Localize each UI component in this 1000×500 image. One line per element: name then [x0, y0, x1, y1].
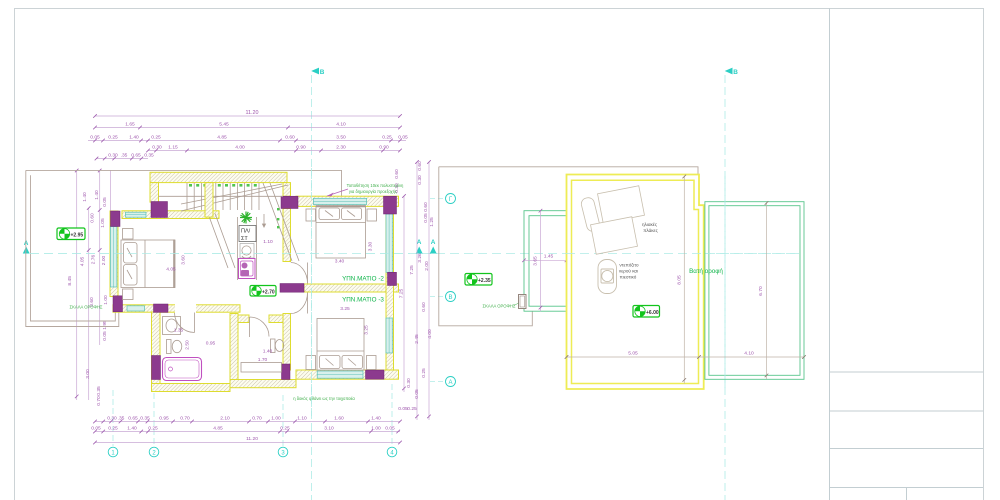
closet PL/ST [238, 217, 257, 280]
svg-text:η δοκός φθάνει ως την τοιχοποι: η δοκός φθάνει ως την τοιχοποιία [293, 396, 355, 401]
right wall [386, 206, 394, 370]
svg-text:0.95: 0.95 [159, 416, 169, 422]
svg-text:0.35: 0.35 [96, 386, 102, 396]
roof dims [683, 177, 685, 384]
svg-text:1.60: 1.60 [334, 416, 344, 422]
bottom dimension chain [91, 416, 402, 445]
svg-text:7.25: 7.25 [399, 288, 405, 298]
doors [175, 263, 308, 338]
terrace outline below (gray) [26, 170, 342, 196]
wc-2 fixtures [241, 339, 284, 372]
svg-text:ΥΠΝ.ΜΑΤΙΟ -3: ΥΠΝ.ΜΑΤΙΟ -3 [342, 297, 384, 304]
svg-text:0.70: 0.70 [252, 416, 262, 422]
svg-text:0.35: 0.35 [144, 153, 154, 159]
svg-text:ΠΛ/: ΠΛ/ [241, 229, 251, 235]
svg-text:0.05: 0.05 [385, 426, 395, 432]
svg-text:2.45: 2.45 [414, 334, 420, 344]
svg-text:4.10: 4.10 [336, 122, 346, 128]
left wall bedroom-1 [110, 211, 118, 297]
bottom wall bedroom-3 [296, 370, 399, 379]
svg-text:1.70: 1.70 [258, 357, 268, 363]
grid bubbles right plan [430, 194, 456, 387]
svg-text:B: B [733, 69, 738, 76]
top dimension chain [88, 110, 408, 160]
svg-text:1.40: 1.40 [94, 190, 100, 200]
svg-text:1.65: 1.65 [125, 122, 135, 128]
svg-text:7.25: 7.25 [409, 265, 415, 275]
svg-text:1.15: 1.15 [168, 145, 178, 151]
green roof level 1 [524, 211, 699, 312]
svg-text:8.45: 8.45 [67, 276, 73, 286]
svg-text:A: A [431, 239, 436, 246]
svg-text:0.60: 0.60 [423, 202, 429, 212]
title block [830, 8, 984, 500]
svg-text:1.10: 1.10 [263, 239, 273, 245]
svg-text:0.25: 0.25 [421, 368, 427, 378]
right dimension chains of left plan [394, 160, 435, 420]
stair core wall over treads [205, 183, 213, 218]
svg-text:1.45: 1.45 [544, 254, 554, 260]
svg-text:4.05: 4.05 [166, 267, 176, 273]
svg-text:ΣΚΑΛΑ ΟΡΟΦΗΣ: ΣΚΑΛΑ ΟΡΟΦΗΣ [483, 304, 516, 309]
svg-text:3.25: 3.25 [364, 325, 370, 335]
corridor east wall [283, 209, 291, 262]
svg-text:ηλιακές: ηλιακές [642, 221, 658, 227]
svg-text:πλάκες: πλάκες [643, 227, 658, 233]
bath left wall [152, 312, 161, 384]
svg-text:11.20: 11.20 [246, 436, 258, 442]
svg-text:4.85: 4.85 [213, 426, 223, 432]
svg-text:1.10: 1.10 [297, 416, 307, 422]
svg-text:0.05: 0.05 [414, 389, 420, 399]
svg-text:8.05: 8.05 [677, 275, 683, 285]
svg-text:για δημιουργία προεξοχής: για δημιουργία προεξοχής [349, 189, 397, 194]
svg-text:Βατή οροφή: Βατή οροφή [689, 268, 723, 275]
left dimension chains [67, 169, 111, 406]
svg-text:2.76: 2.76 [91, 254, 97, 264]
svg-text:1.25: 1.25 [429, 217, 435, 227]
svg-text:0.60: 0.60 [417, 161, 423, 171]
svg-text:0.05: 0.05 [102, 331, 108, 341]
green roof level 2 (vati orofi) [705, 202, 804, 380]
bed 3 [306, 319, 376, 371]
svg-text:3.00: 3.00 [85, 369, 91, 379]
svg-text:0.30: 0.30 [152, 145, 162, 151]
svg-text:ΣΚΑΛΑ ΟΡΟΦΗΣ: ΣΚΑΛΑ ΟΡΟΦΗΣ [70, 305, 103, 310]
plant symbol [240, 212, 252, 224]
svg-text:0.05: 0.05 [91, 426, 101, 432]
svg-text:0.05: 0.05 [102, 197, 108, 207]
walls [150, 172, 287, 182]
svg-text:1.00: 1.00 [103, 295, 109, 305]
svg-text:1.05: 1.05 [100, 218, 106, 228]
svg-text:4.00: 4.00 [427, 329, 433, 339]
svg-text:0.30: 0.30 [406, 378, 412, 388]
svg-text:3.30: 3.30 [368, 241, 374, 251]
magenta sink unit [239, 259, 256, 279]
section dashes re-draw over roof [566, 253, 800, 255]
grid bubbles bottom [108, 384, 397, 457]
yellow roof (walkable) [567, 175, 704, 390]
svg-text:0.30: 0.30 [107, 416, 117, 422]
svg-text:4.85: 4.85 [217, 135, 227, 141]
svg-text:2.10: 2.10 [220, 416, 230, 422]
elevation marker +6.00 [633, 306, 660, 318]
svg-text:A: A [417, 239, 422, 246]
svg-text:ΣΤ: ΣΤ [241, 236, 248, 242]
section line A-A horizontal [23, 239, 800, 254]
svg-text:1.00: 1.00 [271, 416, 281, 422]
svg-text:.35: .35 [118, 416, 125, 422]
svg-text:3.60: 3.60 [181, 255, 187, 265]
svg-text:ντεπόζιτο: ντεπόζιτο [619, 262, 639, 269]
svg-text:0.25: 0.25 [280, 426, 290, 432]
bathroom 1 fixtures [163, 317, 202, 381]
svg-text:5.45: 5.45 [219, 122, 229, 128]
svg-text:+2.35: +2.35 [478, 278, 491, 284]
svg-text:Τοποθέτηση 10εκ πολυστερίνη: Τοποθέτηση 10εκ πολυστερίνη [347, 183, 404, 188]
svg-text:B: B [320, 69, 325, 76]
svg-text:3.50: 3.50 [336, 135, 346, 141]
svg-text:0.60: 0.60 [421, 302, 427, 312]
svg-text:1.00: 1.00 [371, 426, 381, 432]
svg-text:0.70: 0.70 [96, 396, 102, 406]
solar panels [580, 186, 644, 254]
dim 1.45 / 3.65 [524, 259, 567, 261]
svg-text:0.25: 0.25 [108, 426, 118, 432]
svg-text:3.25: 3.25 [340, 306, 350, 312]
svg-text:1.40: 1.40 [82, 192, 88, 202]
svg-text:0.30: 0.30 [108, 153, 118, 159]
purple columns [151, 202, 168, 218]
green tread markers [189, 184, 279, 228]
svg-text:1.40: 1.40 [129, 135, 139, 141]
svg-text:.35: .35 [121, 153, 128, 159]
svg-text:2.50: 2.50 [185, 340, 191, 350]
elevation marker +2.35 [465, 274, 492, 286]
svg-text:0.05: 0.05 [423, 213, 429, 223]
section line B-B right [725, 68, 738, 500]
svg-text:5.05: 5.05 [628, 351, 638, 357]
svg-text:0.05: 0.05 [398, 135, 408, 141]
svg-text:3.40: 3.40 [335, 259, 345, 265]
svg-text:1.40: 1.40 [371, 416, 381, 422]
svg-text:0.65: 0.65 [128, 416, 138, 422]
svg-text:6.70: 6.70 [758, 286, 764, 296]
svg-text:0.25: 0.25 [148, 426, 158, 432]
svg-text:1.40: 1.40 [263, 349, 273, 355]
svg-text:4.05: 4.05 [80, 256, 86, 266]
svg-text:0.60: 0.60 [394, 169, 400, 179]
svg-text:4.10: 4.10 [744, 351, 754, 357]
svg-text:3.10: 3.10 [324, 426, 334, 432]
svg-text:νερού και: νερού και [619, 268, 638, 274]
svg-text:0.25: 0.25 [382, 135, 392, 141]
water tank [598, 260, 617, 294]
svg-text:0.90: 0.90 [379, 145, 389, 151]
svg-text:0.95: 0.95 [206, 341, 216, 347]
svg-text:ΥΠΝ.ΜΑΤΙΟ -2: ΥΠΝ.ΜΑΤΙΟ -2 [342, 276, 384, 283]
svg-text:2.00: 2.00 [424, 261, 430, 271]
svg-text:0.30: 0.30 [417, 175, 423, 185]
section line overlays over left plan [30, 253, 410, 255]
svg-text:0.05: 0.05 [90, 135, 100, 141]
roof stair [519, 295, 527, 309]
bed 2 [306, 206, 377, 259]
svg-text:0.25: 0.25 [108, 135, 118, 141]
svg-text:0.60: 0.60 [285, 135, 295, 141]
bottom wall hall [113, 305, 240, 312]
svg-text:0.60: 0.60 [90, 213, 96, 223]
gray outline of floor below [439, 167, 698, 202]
svg-text:B: B [448, 295, 452, 301]
svg-text:2.00: 2.00 [101, 255, 107, 265]
svg-text:πιεστικό: πιεστικό [620, 274, 637, 280]
svg-text:2.30: 2.30 [336, 145, 346, 151]
svg-text:0.70: 0.70 [180, 416, 190, 422]
svg-text:+6.00: +6.00 [646, 310, 659, 316]
svg-text:4.00: 4.00 [235, 145, 245, 151]
svg-text:0.25: 0.25 [407, 406, 417, 412]
stair treads [159, 183, 300, 268]
svg-text:3.65: 3.65 [533, 256, 539, 266]
svg-text:A: A [448, 380, 452, 386]
bed 1 [121, 229, 175, 300]
svg-text:3.26: 3.26 [417, 253, 423, 263]
elevation marker +2.95 [57, 228, 85, 240]
svg-text:0.35: 0.35 [140, 416, 150, 422]
svg-text:0.90: 0.90 [296, 145, 306, 151]
section line B-B left [312, 68, 325, 500]
svg-text:0.65: 0.65 [131, 153, 141, 159]
svg-text:0.25: 0.25 [151, 135, 161, 141]
elevation marker +2.70 [250, 286, 276, 297]
svg-text:+2.70: +2.70 [262, 289, 275, 295]
svg-text:1.40: 1.40 [127, 426, 137, 432]
svg-text:+2.95: +2.95 [71, 232, 84, 238]
svg-text:11.20: 11.20 [245, 110, 258, 116]
